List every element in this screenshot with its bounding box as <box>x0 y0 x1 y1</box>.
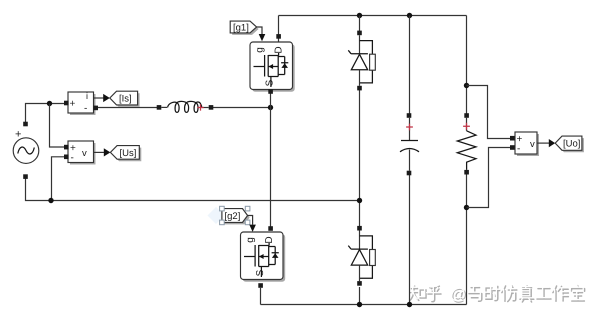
wire diode2 bottom lead to bottom rail <box>359 287 361 305</box>
from tag [g2] selected <box>208 206 250 224</box>
svg-text:+: + <box>70 99 76 110</box>
wire MOSFET2 source to bottom rail <box>260 288 262 305</box>
wire current- to inductor <box>98 107 158 109</box>
port MOSFET2 drain <box>268 226 273 231</box>
current measurement block Is <box>64 91 98 115</box>
wire Us - input down to bottom-left rail <box>52 157 65 201</box>
wire Uo- tap to Uo block <box>467 148 511 208</box>
wire AC bottom rail to diode midpoint <box>26 179 360 201</box>
voltage measurement block Us <box>64 141 96 165</box>
polarity mark + resistor <box>463 123 470 130</box>
polarity mark + inductor <box>197 104 203 110</box>
svg-text:-: - <box>517 143 520 154</box>
polarity mark + capacitor <box>406 124 413 131</box>
wire bottom rail <box>261 304 467 306</box>
goto tag [Us] <box>110 146 141 162</box>
wire resistor branch lower <box>466 175 468 305</box>
svg-text:D: D <box>274 46 285 53</box>
goto tag [Is] <box>110 91 140 107</box>
transistor MOSFET2 <box>241 232 286 282</box>
node bottom rail diode <box>357 302 362 307</box>
svg-text:g: g <box>254 47 265 53</box>
wire g1 tag to MOSFET1 gate <box>257 27 262 34</box>
arrowhead g2 into gate <box>249 225 256 232</box>
wire Uo output <box>537 142 549 144</box>
node top rail diode <box>357 13 362 18</box>
node inductor/bridge midpoint <box>268 105 273 110</box>
svg-text:[Is]: [Is] <box>119 94 132 105</box>
inductor L <box>157 101 214 112</box>
wire top rail <box>279 15 467 17</box>
node Uo+ tap <box>464 83 469 88</box>
svg-text:S: S <box>264 79 275 86</box>
wire MOSFET1 source to MOSFET2 drain <box>270 93 272 228</box>
node Uo- tap <box>464 205 469 210</box>
resistor R load <box>457 113 476 174</box>
transistor MOSFET1 <box>250 42 295 92</box>
port MOSFET2 source <box>258 283 263 288</box>
diode D1 <box>348 31 375 91</box>
svg-text:S: S <box>255 269 266 276</box>
ac source V1 <box>13 122 39 179</box>
wire capacitor branch lower <box>409 175 411 305</box>
svg-text:-: - <box>71 153 74 164</box>
node top rail capacitor <box>407 13 412 18</box>
wire Uo+ tap to Uo block <box>467 86 511 139</box>
port MOSFET1 source <box>268 89 273 94</box>
watermark zhihu text <box>408 284 584 304</box>
wire AC top to current measurement <box>26 104 65 123</box>
svg-text:v: v <box>82 148 87 159</box>
svg-text:[g1]: [g1] <box>233 23 249 34</box>
capacitor C <box>400 113 419 175</box>
svg-text:@: @ <box>450 286 466 303</box>
node bottom rail capacitor <box>407 302 412 307</box>
arrowhead into Uo tag <box>549 139 555 147</box>
wire i output <box>94 97 104 99</box>
wire junction to Us + input <box>50 104 65 148</box>
svg-text:g: g <box>245 237 256 243</box>
arrowhead g1 into gate <box>259 34 266 41</box>
port MOSFET1 drain <box>276 34 281 39</box>
selection handles g2 <box>220 206 250 224</box>
node diode midpoint AC return <box>357 198 362 203</box>
svg-text:[Us]: [Us] <box>120 148 137 159</box>
wire diode1 lower lead to AC return <box>359 90 361 226</box>
arrowhead into Us tag <box>104 148 111 156</box>
wire capacitor branch upper <box>409 16 411 114</box>
wire resistor branch upper <box>466 16 468 114</box>
svg-text:[g2]: [g2] <box>225 211 241 222</box>
node top-left junction <box>47 101 52 106</box>
wire inductor to bridge midpoint <box>213 107 271 109</box>
from tag [g1] <box>230 21 258 35</box>
goto tag [Uo] <box>555 136 584 152</box>
wire diode leg upper lead <box>359 16 361 32</box>
diode D2 <box>348 226 375 286</box>
svg-text:-: - <box>84 103 87 114</box>
node bottom-left junction <box>48 198 53 203</box>
voltage measurement block Uo <box>510 132 539 156</box>
wire MOSFET1 drain to top rail <box>278 16 280 42</box>
svg-text:[Uo]: [Uo] <box>563 139 580 150</box>
svg-text:+: + <box>15 129 21 141</box>
svg-text:v: v <box>530 139 535 150</box>
wire g2 tag to MOSFET2 gate <box>248 216 253 225</box>
svg-text:i: i <box>86 91 88 101</box>
svg-text:D: D <box>264 236 275 243</box>
wire v output <box>94 151 105 153</box>
watermark diamond faint <box>208 207 225 224</box>
arrowhead into Is tag <box>103 94 110 102</box>
